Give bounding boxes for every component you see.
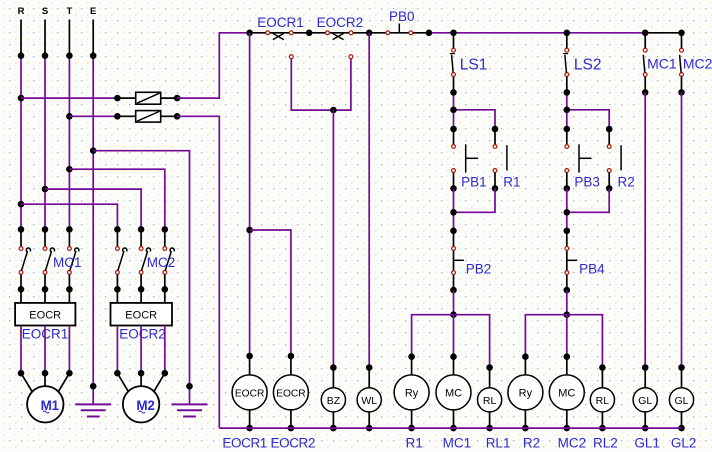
contact EOCR2 NO terminal — [349, 55, 353, 59]
wire buzzer BZ drop — [330, 110, 337, 371]
label MC2 (aux contact) — [683, 56, 712, 72]
relay coil R1 — [394, 356, 429, 431]
svg-text:S: S — [42, 6, 48, 17]
svg-text:LS2: LS2 — [574, 57, 602, 74]
svg-text:GL: GL — [638, 395, 652, 407]
node T (phase label) — [66, 6, 72, 17]
wire MC2 coil drop — [564, 315, 571, 360]
push-button PB3 (NO start) — [564, 129, 592, 192]
label GL1 (bottom) — [634, 435, 660, 450]
relay EOCR (M1 overcurrent) box — [15, 289, 75, 325]
wire EOCR1 NO terminal to buzzer node — [289, 55, 351, 114]
svg-text:R1: R1 — [406, 435, 423, 450]
contactor coil MC1 — [436, 356, 471, 431]
wire control bottom bus — [219, 427, 681, 429]
svg-text:MC1: MC1 — [647, 56, 677, 72]
contact MC2 aux (NO) — [678, 33, 685, 96]
svg-text:LS1: LS1 — [460, 57, 488, 74]
push-button PB0 (NC stop) — [386, 24, 413, 35]
wire EOCR box2 to motor M2 — [114, 326, 168, 377]
label PB4 — [579, 262, 605, 277]
ground (E column) — [75, 404, 111, 416]
contactor MC1 main contact pole 2 — [42, 229, 55, 292]
label RL2 (bottom) — [593, 435, 618, 450]
relay coil EOCR1 — [232, 356, 267, 431]
push-button PB2 (NO jog) — [450, 231, 464, 294]
label PB3 — [574, 175, 600, 190]
motor M1 — [21, 373, 69, 422]
label PB0 — [389, 9, 415, 24]
svg-text:R1: R1 — [503, 175, 520, 190]
limit switch LS2 — [563, 33, 568, 93]
svg-text:EOCR2: EOCR2 — [271, 435, 316, 450]
svg-text:RL: RL — [483, 395, 497, 407]
svg-text:WL: WL — [361, 395, 377, 407]
wire T tap to M2 phase 3 — [69, 169, 168, 233]
label RL1 (bottom) — [486, 435, 511, 450]
wire distribution line group 1 — [408, 315, 493, 371]
contactor MC2 main contact pole 2 — [138, 229, 151, 292]
wire EOCR box1 to motor M1 — [18, 326, 73, 377]
contactor MC2 main contact pole 1 — [114, 229, 127, 292]
node S (phase label) — [42, 6, 48, 17]
wire EOCR2 coil feed branch — [250, 230, 295, 359]
svg-text:EOCR2: EOCR2 — [119, 327, 166, 342]
push-button PB1 (NO start) — [450, 129, 478, 192]
svg-text:PB2: PB2 — [466, 262, 492, 277]
svg-text:EOCR2: EOCR2 — [317, 15, 364, 30]
svg-text:E: E — [90, 6, 96, 17]
buzzer BZ — [321, 368, 345, 432]
svg-text:PB3: PB3 — [574, 175, 600, 190]
label LS1 — [460, 57, 488, 74]
wire PB1/R1 parallel branch bottom — [450, 188, 495, 234]
svg-text:EOCR1: EOCR1 — [222, 435, 267, 450]
label R1 (bottom) — [406, 435, 423, 450]
wire lamp WL drop — [366, 33, 373, 371]
wire distribution line group 2 — [522, 315, 606, 371]
svg-text:GL2: GL2 — [671, 435, 697, 450]
node E (earth label) — [90, 6, 96, 17]
wire PB2 to distribution node 1 — [450, 290, 457, 318]
lamp GL1 — [633, 368, 657, 432]
contact EOCR1 (NC, on rail) — [266, 31, 293, 40]
wire fuse F1 feed from R — [21, 97, 117, 99]
label MC2 (main contacts) — [147, 255, 176, 270]
svg-text:BZ: BZ — [327, 395, 341, 407]
wire E tap to ground G2 — [93, 151, 193, 405]
wire T phase vertical — [66, 20, 73, 233]
svg-text:RL: RL — [596, 395, 610, 407]
svg-text:GL1: GL1 — [634, 435, 660, 450]
label EOCR2 (contact) — [317, 15, 364, 30]
motor M2 — [117, 373, 164, 422]
wire R phase vertical — [18, 20, 25, 233]
svg-text:Ry: Ry — [405, 387, 419, 399]
svg-text:PB4: PB4 — [579, 262, 605, 277]
svg-text:EOCR: EOCR — [235, 388, 264, 399]
label PB2 — [466, 262, 492, 277]
lamp RL1 — [478, 368, 502, 432]
fuse F2 — [114, 111, 180, 123]
contactor coil MC2 — [549, 356, 584, 431]
wire S tap to M2 phase 2 — [45, 189, 144, 233]
contactor MC1 main contact pole 3 — [66, 229, 79, 292]
svg-text:MC2: MC2 — [683, 56, 712, 72]
relay coil R2 — [508, 356, 543, 431]
wire GL2 lamp drop — [678, 92, 685, 370]
wire control top rail — [246, 30, 685, 37]
lamp WL — [357, 368, 381, 432]
svg-text:MC1: MC1 — [53, 255, 82, 270]
svg-text:Ry: Ry — [519, 387, 533, 399]
label EOCR2 (bottom) — [271, 435, 316, 450]
wire fuse F2 feed from T — [69, 115, 117, 117]
relay coil EOCR2 — [273, 356, 308, 431]
wire fuse F1 output to control rail — [177, 33, 250, 98]
lamp RL2 — [590, 368, 614, 432]
label EOCR1 (power) — [22, 327, 69, 342]
wire PB3/R2 parallel branch top — [564, 89, 613, 132]
svg-text:R: R — [18, 6, 25, 17]
svg-text:M2: M2 — [136, 398, 154, 413]
svg-text:EOCR: EOCR — [29, 309, 61, 321]
label MC2 (bottom) — [558, 435, 587, 450]
svg-text:RL2: RL2 — [593, 435, 618, 450]
svg-text:MC: MC — [558, 387, 575, 399]
svg-text:EOCR1: EOCR1 — [257, 15, 304, 30]
label R2 — [618, 175, 635, 190]
svg-text:EOCR: EOCR — [125, 309, 157, 321]
label MC1 (main contacts) — [53, 255, 82, 270]
label MC1 (aux contact) — [647, 56, 677, 72]
wire EOCR1 coil feed — [246, 33, 253, 360]
label EOCR2 (power) — [119, 327, 166, 342]
svg-text:MC: MC — [445, 387, 462, 399]
relay EOCR (M2 overcurrent) box — [111, 289, 173, 325]
fuse F1 — [114, 92, 180, 104]
svg-text:GL: GL — [674, 395, 688, 407]
svg-text:PB0: PB0 — [389, 9, 415, 24]
svg-text:MC2: MC2 — [147, 255, 176, 270]
label PB1 — [461, 175, 487, 190]
lamp GL2 — [669, 368, 693, 432]
ground (M2 earth) — [172, 404, 208, 416]
contact MC1 aux (NO) — [642, 33, 649, 96]
wire fuse F2 output down to control bottom bus — [177, 116, 219, 428]
label LS2 — [574, 57, 602, 74]
label R2 (bottom) — [523, 435, 540, 450]
svg-text:R2: R2 — [523, 435, 540, 450]
svg-text:R2: R2 — [618, 175, 635, 190]
push-button PB4 (NO jog) — [564, 231, 578, 294]
contact R1 (NO holding) — [492, 129, 507, 192]
contact R2 (NO holding) — [606, 129, 621, 192]
wire S phase vertical — [42, 20, 49, 233]
svg-text:M1: M1 — [41, 398, 60, 413]
wire PB4 to distribution node 2 — [564, 290, 571, 318]
limit switch LS1 — [450, 33, 456, 93]
wire PB1/R1 parallel branch top — [450, 89, 498, 132]
wire MC1 coil drop — [450, 315, 457, 360]
contactor MC2 main contact pole 3 — [162, 229, 175, 292]
svg-text:T: T — [66, 6, 72, 17]
contact EOCR2 (NC, on rail) — [326, 31, 353, 40]
node R (phase label) — [18, 6, 25, 17]
label GL2 (bottom) — [671, 435, 697, 450]
label EOCR1 (contact) — [257, 15, 304, 30]
label MC1 (bottom) — [443, 435, 472, 450]
svg-text:RL1: RL1 — [486, 435, 511, 450]
wire PB3/R2 parallel branch bottom — [564, 188, 610, 234]
svg-text:PB1: PB1 — [461, 175, 487, 190]
label EOCR1 (bottom) — [222, 435, 267, 450]
label R1 — [503, 175, 520, 190]
wire GL1 lamp drop — [642, 92, 649, 370]
contactor MC1 main contact pole 1 — [18, 229, 31, 292]
svg-text:MC2: MC2 — [558, 435, 587, 450]
wire E earth vertical — [90, 20, 97, 405]
wire R tap to M2 phase 1 — [21, 204, 121, 233]
svg-text:MC1: MC1 — [443, 435, 472, 450]
svg-text:EOCR: EOCR — [276, 388, 305, 399]
